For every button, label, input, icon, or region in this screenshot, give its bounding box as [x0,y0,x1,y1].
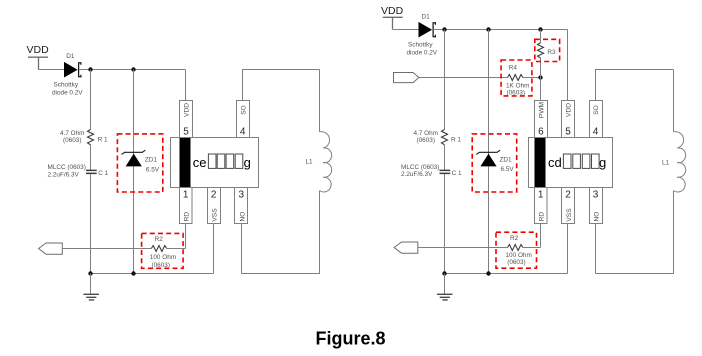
label MLCC (0603) 2.2uF/6.3V (left) [48,164,86,178]
inductor L1 (left) [320,132,332,192]
capacitor C1 (left) [86,170,97,173]
svg-text:Figure.8: Figure.8 [315,329,385,349]
port PD input (right) [394,242,418,253]
wire R1/C1 branch vertical (right) [444,30,446,274]
pin 5 VDD box (right) [562,101,575,138]
svg-text:Schottky: Schottky [54,82,79,89]
resistor R2 (left) [151,246,166,252]
svg-text:ZD1: ZD1 [500,156,513,163]
pin 1 RD box (left) [180,188,193,224]
junction node R3 bottom [538,75,542,79]
svg-text:R3: R3 [547,49,556,56]
VDD power symbol (right) [381,5,404,30]
svg-text:100 Ohm: 100 Ohm [506,252,532,259]
ground rail (right) [445,273,568,275]
junction node at R1 branch [88,67,92,71]
pin 2 VSS box (right) [562,188,575,224]
svg-text:6.5V: 6.5V [501,166,515,173]
resistor R3 [538,43,544,58]
zener diode ZD1 (left) [122,150,146,166]
ground symbol (left) [83,274,99,300]
red dashed box around R2 (right) [496,232,537,268]
svg-text:(0603): (0603) [63,137,81,144]
junction node at R1 branch (right) [442,27,446,31]
svg-text:100 Ohm: 100 Ohm [150,254,176,261]
junction node ground rail at ZD1 branch (right) [486,271,490,275]
wire L1 bottom to NO pin (right) [596,191,674,274]
svg-text:ZD1: ZD1 [145,157,158,164]
pin 5 VDD box (left) [180,101,193,138]
svg-text:NO: NO [594,212,601,222]
diode D1 schottky (right) [419,22,436,38]
wire VSS pin to ground rail [213,224,215,274]
svg-text:PWM: PWM [539,102,546,118]
svg-text:5: 5 [183,126,189,137]
wire D1 cathode to VDD pin rail (right) [434,30,568,101]
resistor R1 (right) [442,129,448,144]
svg-text:C 1: C 1 [452,170,462,177]
wire R2 to PD pin (right) [523,224,541,248]
svg-text:diode 0.2V: diode 0.2V [407,50,438,57]
svg-text:1K Ohm: 1K Ohm [506,83,529,90]
VDD power symbol (left) [27,44,50,70]
label 1K Ohm (0603) [506,83,529,97]
IC U1 body (left) [171,138,259,188]
svg-text:2: 2 [565,189,571,200]
IC U2 text cd????g (right) [548,154,606,170]
wire port to R2 (right) [418,247,508,249]
svg-text:L1: L1 [306,159,314,166]
red dashed box around R3 [535,39,560,61]
svg-text:R 1: R 1 [451,137,461,144]
svg-text:2.2uF/6.3V: 2.2uF/6.3V [48,171,80,178]
LEFT CIRCUIT [27,44,332,300]
label Schottky diode 0.2V (right) [407,42,438,57]
svg-text:1: 1 [183,189,189,200]
junction node at ZD1 branch (right) [486,27,490,31]
svg-text:1: 1 [538,189,544,200]
resistor R4 (right) [508,75,523,81]
zener diode ZD1 (right) [476,150,500,166]
svg-text:MLCC (0603): MLCC (0603) [401,164,439,171]
wire VDD to D1 anode (right) [393,29,420,31]
label 4.7 Ohm (0603) left [60,130,85,144]
wire SO pin to L1 top [243,70,320,132]
pin 3 NO box (right) [590,188,603,224]
wire VSS pin to ground rail (right) [567,224,569,274]
svg-text:5: 5 [565,126,571,137]
svg-text:VSS: VSS [566,208,573,222]
svg-text:D1: D1 [422,14,431,21]
IC U2 black bar (right) [535,138,546,188]
wire VDD to D1 anode [39,69,65,71]
svg-text:2: 2 [211,189,217,200]
wire R2 to PD pin [167,224,186,249]
svg-text:VSS: VSS [212,208,219,222]
red dashed box around R4 [501,60,532,96]
pin 3 NO box (left) [235,188,248,224]
wire R1/C1 branch vertical [90,70,92,274]
red dashed box around ZD1 (right) [472,134,517,192]
svg-text:NO: NO [239,212,246,222]
svg-text:g: g [244,155,251,170]
svg-text:R4: R4 [509,64,518,71]
wire R4 to PWM pin junction [523,77,541,79]
svg-text:3: 3 [593,189,599,200]
ground symbol (right) [437,274,453,300]
svg-text:4: 4 [240,126,246,137]
port PWM input (right) [394,73,419,83]
svg-text:VDD: VDD [566,103,573,117]
wire SO pin to L1 top (right) [596,70,674,132]
label 4.7 Ohm (0603) right [414,130,439,144]
svg-text:SO: SO [240,105,247,115]
svg-text:VDD: VDD [184,103,191,117]
svg-text:3: 3 [239,189,245,200]
svg-text:cd: cd [548,155,562,170]
svg-text:R2: R2 [155,236,164,243]
label Schottky diode 0.2V (left) [52,82,83,97]
label 100 Ohm (0603) right [506,252,532,266]
wire R3 branch vertical [540,30,542,101]
svg-text:4.7 Ohm: 4.7 Ohm [60,130,85,137]
svg-text:VDD: VDD [27,44,50,56]
svg-text:L1: L1 [662,160,670,167]
svg-text:4: 4 [593,126,599,137]
wire port to R4 [419,77,508,79]
pin 4 SO box (left) [237,101,250,138]
svg-text:RD: RD [184,212,191,222]
wire D1 cathode to VDD pin rail [80,70,186,101]
port PD input (left) [39,243,63,254]
junction node at ZD1 branch [131,67,135,71]
IC U1 black bar (left) [180,138,191,188]
svg-text:R2: R2 [510,235,519,242]
IC U2 body (right) [529,138,613,188]
IC U1 text ce????g (left) [193,154,251,170]
junction node ground rail at C1 branch (right) [442,271,446,275]
junction node at R3 top (right) [538,27,542,31]
resistor R2 (right) [508,245,523,251]
label MLCC (0603) 2.2uF/6.3V (right) [401,164,439,178]
svg-text:2.2uF/6.3V: 2.2uF/6.3V [401,171,433,178]
red dashed box around R2 (left) [142,233,184,268]
junction node ground rail at ZD1 branch [131,271,135,275]
wire ZD1 branch vertical (right) [488,30,490,274]
svg-text:diode 0.2V: diode 0.2V [52,90,83,97]
ground rail (left) [91,273,214,275]
inductor L1 (right) [674,132,686,192]
wire port to R2 [62,248,151,250]
diode D1 schottky (left) [64,62,81,78]
red dashed box around ZD1 (left) [117,134,162,192]
svg-text:(0603): (0603) [417,137,435,144]
svg-text:C 1: C 1 [98,170,108,177]
wire ZD1 branch vertical [133,70,135,274]
svg-text:SO: SO [593,105,600,115]
resistor R1 (left) [88,129,94,144]
label 100 Ohm (0603) left [150,254,176,269]
svg-text:g: g [599,155,606,170]
svg-text:(0603): (0603) [507,259,525,266]
capacitor C1 (right) [440,170,451,173]
svg-text:VDD: VDD [381,5,404,17]
svg-text:R 1: R 1 [98,137,108,144]
svg-text:6.5V: 6.5V [146,166,160,173]
junction node ground rail at C1 branch [88,271,92,275]
svg-text:D1: D1 [66,53,75,60]
svg-text:6: 6 [538,126,544,137]
svg-text:ce: ce [193,155,207,170]
svg-text:MLCC (0603): MLCC (0603) [48,164,86,171]
svg-text:4.7 Ohm: 4.7 Ohm [414,130,439,137]
pin 6 PWM box (right) [535,101,548,138]
pin 1 RD box (right) [535,188,548,224]
pin 4 SO box (right) [590,101,603,138]
svg-text:Schottky: Schottky [408,42,433,49]
RIGHT CIRCUIT [381,5,686,300]
wire L1 bottom to NO pin [242,191,320,274]
pin 2 VSS box (left) [208,188,221,224]
svg-text:RD: RD [539,212,546,222]
